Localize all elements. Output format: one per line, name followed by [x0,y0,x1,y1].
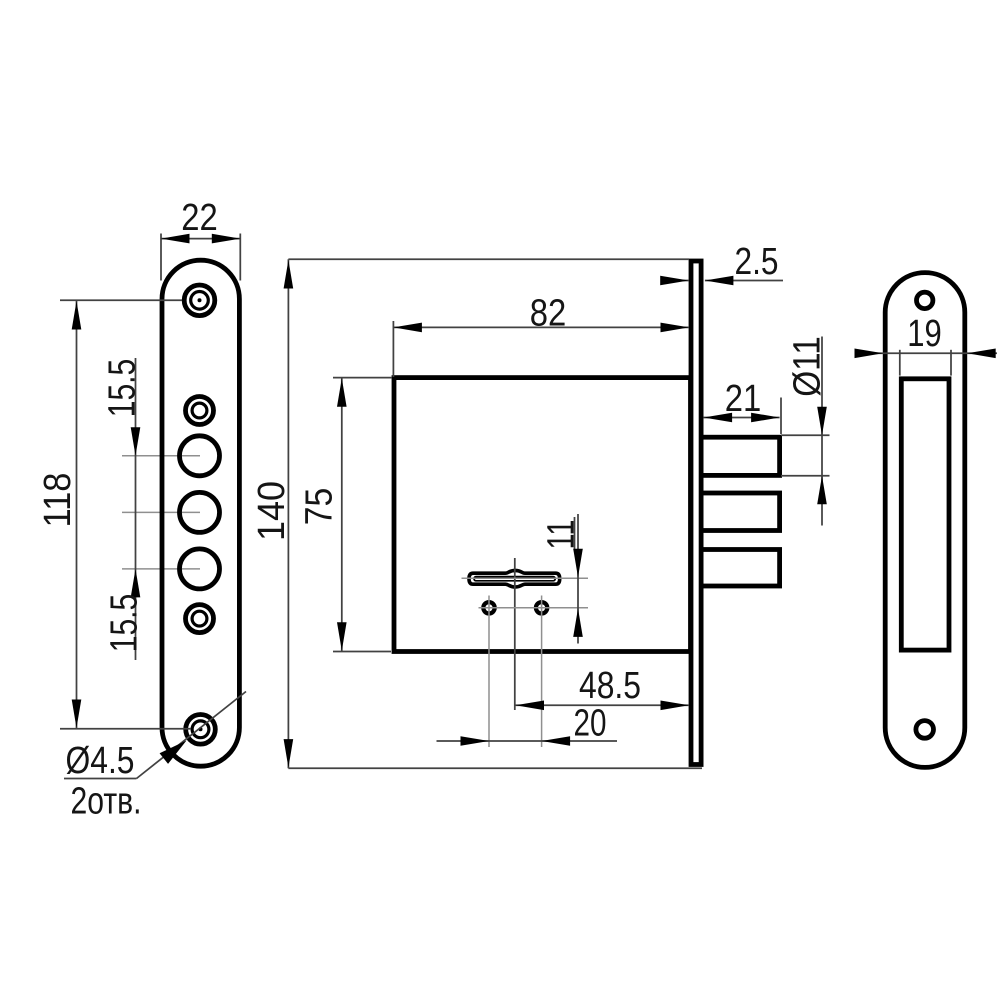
svg-text:Ø11: Ø11 [787,336,829,397]
svg-text:82: 82 [530,293,567,335]
svg-text:15.5: 15.5 [104,594,146,653]
svg-text:19: 19 [907,313,942,355]
svg-text:Ø4.5: Ø4.5 [66,740,135,782]
svg-text:15.5: 15.5 [102,359,144,418]
svg-text:2.5: 2.5 [735,241,779,283]
svg-text:2отв.: 2отв. [71,781,142,823]
svg-text:118: 118 [37,473,79,528]
svg-text:11: 11 [541,520,583,550]
svg-text:22: 22 [181,197,218,239]
svg-text:75: 75 [299,488,341,526]
svg-text:48.5: 48.5 [579,665,641,707]
svg-text:21: 21 [725,378,762,420]
svg-text:20: 20 [574,703,607,745]
svg-text:140: 140 [251,481,293,541]
